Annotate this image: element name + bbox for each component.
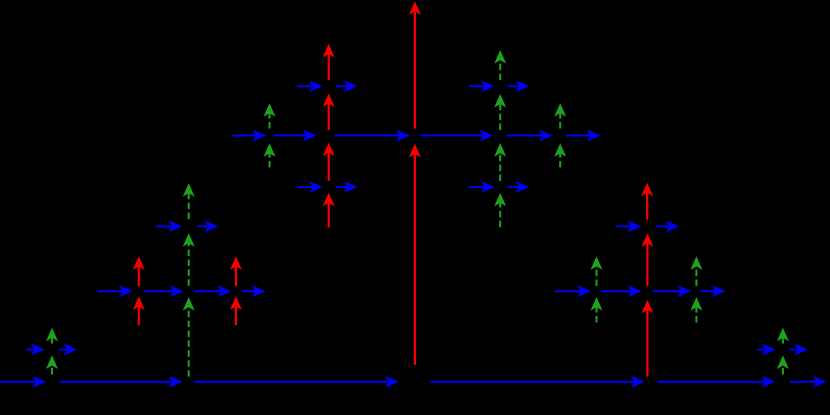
wire top row segment 4 (421, 130, 493, 142)
wire left row segment 3 (194, 285, 232, 297)
wire right corner left arm (757, 344, 776, 356)
wire axis segment 6 (790, 376, 827, 388)
wire lower-right sub-cluster right arm (508, 181, 530, 193)
wire left corner left arm (26, 344, 44, 356)
green arrow right-row left satellite lower (591, 297, 603, 323)
red arrow right chain bottom (641, 300, 653, 377)
red arrow top chain segment lower-mid (323, 143, 335, 182)
wire lower-left sub-cluster right arm (336, 181, 358, 193)
green arrow right-row right satellite lower (690, 297, 702, 323)
green arrow right-row right satellite upper (690, 256, 702, 286)
green arrow left chain bottom (183, 297, 195, 377)
wire top row segment 1 (232, 130, 266, 142)
wire right corner right arm (790, 344, 809, 356)
green arrow right-row left satellite upper (591, 256, 603, 286)
wire left row segment 2 (144, 285, 184, 297)
green arrow top-row left satellite lower (264, 143, 276, 167)
green arrow top chain segment upper-mid (494, 94, 506, 130)
green arrow top chain segment top (494, 50, 506, 80)
wire right cluster left arm (616, 220, 641, 232)
red arrow right chain top (641, 183, 653, 220)
wire lower-right sub-cluster left arm (469, 181, 495, 193)
red arrow top chain segment bottom (323, 193, 335, 228)
green arrow left corner lower (46, 355, 58, 374)
wire top row segment 3 (335, 130, 410, 142)
wire axis segment 1 (0, 376, 46, 388)
red arrow right chain middle (641, 233, 653, 286)
wire upper-right sub-cluster left arm (469, 80, 495, 92)
wire axis segment 3 (194, 376, 399, 388)
red arrow left-row left satellite lower (133, 296, 145, 325)
wire right row segment 3 (653, 285, 692, 297)
wire left cluster left arm (157, 220, 183, 232)
wire right row segment 1 (555, 285, 591, 297)
wire upper-left sub-cluster right arm (336, 80, 358, 92)
green arrow top-row right satellite lower (554, 143, 566, 167)
green arrow top chain segment lower-mid (494, 143, 506, 181)
wire top row segment 6 (566, 130, 600, 142)
wire left cluster right arm (197, 220, 218, 232)
wire right row segment 2 (601, 285, 642, 297)
wire upper-right sub-cluster right arm (508, 80, 530, 92)
green arrow top chain segment bottom (494, 193, 506, 228)
wire right cluster right arm (656, 220, 680, 232)
red arrow left-row right satellite upper (230, 256, 242, 286)
wire left row segment 1 (97, 285, 133, 297)
green arrow right corner upper (777, 328, 789, 344)
red arrow left-row right satellite lower (230, 296, 242, 325)
wire left corner right arm (59, 344, 78, 356)
red arrow center upper (409, 1, 421, 128)
green arrow left corner upper (46, 328, 58, 344)
green arrow top-row left satellite upper (264, 103, 276, 128)
wire top row segment 2 (274, 130, 317, 142)
red arrow center lower (409, 144, 421, 365)
green arrow top-row right satellite upper (554, 103, 566, 128)
wire axis segment 5 (657, 376, 775, 388)
wire lower-left sub-cluster left arm (297, 181, 323, 193)
red arrow left-row left satellite upper (133, 256, 145, 286)
green arrow left chain top (183, 183, 195, 219)
wire upper-left sub-cluster left arm (297, 80, 323, 92)
wire axis segment 2 (60, 376, 183, 388)
wire right row segment 4 (700, 285, 725, 297)
wire top row segment 5 (506, 130, 552, 142)
wire axis segment 4 (430, 376, 644, 388)
green arrow right corner lower (777, 355, 789, 374)
green arrow left chain middle (183, 233, 195, 286)
red arrow top chain segment upper-mid (323, 93, 335, 130)
wire left row segment 4 (242, 285, 266, 297)
red arrow top chain segment top (323, 44, 335, 80)
